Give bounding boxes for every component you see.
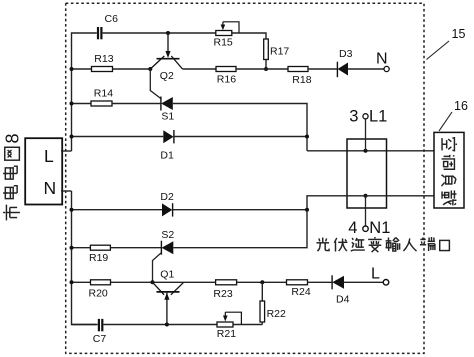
wire: S2 to right vertical xyxy=(173,210,307,248)
svg-text:R20: R20 xyxy=(89,288,108,300)
svg-text:L: L xyxy=(371,266,380,283)
wire: bus to D1 xyxy=(72,136,164,138)
terminal N circle xyxy=(384,66,389,71)
wire: R21 to R22 bottom xyxy=(233,324,262,326)
wire: R22 bottom link xyxy=(261,322,263,325)
wire: R14 to S1 xyxy=(112,103,161,105)
resistor R18 xyxy=(288,67,308,72)
svg-text:Q2: Q2 xyxy=(160,70,174,82)
wire: R20 to Q1 junction xyxy=(111,281,153,283)
svg-text:R17: R17 xyxy=(270,46,289,58)
air conditioner load box xyxy=(434,132,464,208)
svg-text:3: 3 xyxy=(349,107,358,125)
wire: relay bottom feed xyxy=(307,196,434,210)
wire: C7 to R21 xyxy=(104,324,218,326)
svg-text:16: 16 xyxy=(454,99,468,113)
resistor R14 xyxy=(91,101,112,106)
relay connector box xyxy=(347,139,387,208)
thyristor S2 xyxy=(161,241,173,255)
capacitor C6 xyxy=(98,27,101,39)
svg-text:8: 8 xyxy=(3,133,23,143)
node: bus D1 xyxy=(70,135,74,139)
thyristor S1 xyxy=(161,97,173,111)
svg-text:R19: R19 xyxy=(89,252,108,264)
svg-text:R22: R22 xyxy=(267,308,286,320)
node: relay bottom terminal xyxy=(364,194,368,198)
node: D1 junction right xyxy=(305,135,309,139)
svg-text:R21: R21 xyxy=(217,328,236,340)
resistor R16 xyxy=(216,67,236,72)
potentiometer R15 xyxy=(216,22,239,36)
node: relay top terminal xyxy=(364,149,368,153)
resistor R19 xyxy=(90,245,110,250)
resistor R13 xyxy=(92,67,113,72)
svg-text:S2: S2 xyxy=(161,229,174,241)
wire: R19 to S2 xyxy=(110,247,161,249)
wire: R16 to R18 xyxy=(236,68,288,70)
node: R17 bottom junction xyxy=(264,67,268,71)
node: R22 top junction xyxy=(260,280,264,284)
callout line 16 xyxy=(439,112,452,131)
wire: S2 gate xyxy=(153,253,162,283)
svg-text:D3: D3 xyxy=(339,48,353,60)
svg-text:L1: L1 xyxy=(369,107,387,125)
potentiometer R21 xyxy=(217,312,241,327)
svg-text:15: 15 xyxy=(452,27,466,41)
resistor R17 xyxy=(264,39,269,60)
terminal L circle xyxy=(383,280,389,286)
node: Q2 base junction xyxy=(148,67,152,71)
wire: C6 to R15 xyxy=(103,32,216,34)
mains grid box xyxy=(25,138,62,204)
wire: Q2 to R16 xyxy=(183,68,217,70)
capacitor C7 xyxy=(99,319,102,331)
node: Q2 collector tap xyxy=(166,31,170,35)
svg-text:R16: R16 xyxy=(217,74,236,86)
wire: D3 to N terminal xyxy=(348,68,384,70)
wire: S1 gate xyxy=(150,69,161,99)
wire: bus to D2 xyxy=(72,209,163,211)
terminal N1 circle xyxy=(363,226,368,231)
terminal L1 circle xyxy=(363,114,368,119)
wire: C7 line left xyxy=(72,324,97,326)
svg-text:D1: D1 xyxy=(160,150,174,162)
wire: L stub xyxy=(61,150,72,152)
mains grid label 市电电网8 (vertical) xyxy=(3,133,23,220)
node: Q1 base junction xyxy=(151,280,155,284)
label 光伏逆变输入端口 xyxy=(316,237,449,252)
wire: L1 drop xyxy=(365,119,367,151)
wire: relay top feed xyxy=(307,150,434,152)
wire: D2 to right vertical xyxy=(173,209,307,211)
node: bus R19 xyxy=(70,246,74,250)
wire: R22 top link xyxy=(261,282,263,301)
wire: N1 drop xyxy=(365,196,367,226)
svg-text:L: L xyxy=(44,146,54,166)
wire: bus to R19 xyxy=(72,247,91,249)
wire: R13 to Q2 xyxy=(113,68,151,70)
wire: left bus lower xyxy=(72,191,98,325)
node: bus R20 xyxy=(70,280,74,284)
svg-text:N: N xyxy=(376,50,388,67)
callout line 15 xyxy=(427,41,450,60)
wire: R24 to D4 xyxy=(308,281,333,283)
wire: N stub xyxy=(61,190,72,192)
wire: S1 to right corner xyxy=(173,104,307,151)
svg-text:R23: R23 xyxy=(213,288,232,300)
svg-text:4: 4 xyxy=(348,219,357,237)
wire: R15 to R17 corner xyxy=(232,33,266,39)
diode D4 xyxy=(332,275,344,289)
resistor R23 xyxy=(216,280,237,285)
svg-text:C6: C6 xyxy=(105,13,119,25)
diode D3 xyxy=(337,62,348,77)
resistor R22 xyxy=(260,301,265,322)
node: bus R13 xyxy=(70,67,74,71)
wire: bus to R20 xyxy=(72,281,91,283)
svg-text:R24: R24 xyxy=(291,286,310,298)
label 空调负载 (vertical) xyxy=(442,137,457,205)
diode D2 xyxy=(162,203,173,216)
svg-text:D2: D2 xyxy=(160,191,174,203)
transistor Q1 xyxy=(153,282,184,324)
wire: R23 to R24 xyxy=(237,281,287,283)
wire: R17 bottom to line xyxy=(265,60,267,70)
svg-text:R14: R14 xyxy=(94,88,113,100)
diode D1 xyxy=(163,130,174,143)
svg-text:R18: R18 xyxy=(292,74,311,86)
svg-text:D4: D4 xyxy=(336,293,350,305)
svg-text:N1: N1 xyxy=(369,219,390,237)
wire: bus to R13 xyxy=(72,68,92,70)
transistor Q2 xyxy=(150,33,182,69)
enclosure dashed border xyxy=(66,3,424,353)
wire: D1 to right vertical xyxy=(174,136,307,138)
resistor R24 xyxy=(287,280,308,285)
svg-text:R15: R15 xyxy=(214,37,233,49)
wire: Q1 to R23 xyxy=(153,281,216,283)
svg-text:Q1: Q1 xyxy=(160,269,174,281)
wire: R18 to D3 xyxy=(308,68,337,70)
svg-text:C7: C7 xyxy=(93,333,107,345)
node: Q1 emitter tap xyxy=(165,323,169,327)
wire: left bus upper xyxy=(72,33,97,151)
node: bus R14 xyxy=(70,102,74,106)
node: D2 junction right xyxy=(305,208,309,212)
svg-text:R13: R13 xyxy=(94,53,113,65)
node: bus D2 xyxy=(70,208,74,212)
wire: bus to R14 xyxy=(72,103,92,105)
svg-text:S1: S1 xyxy=(161,111,174,123)
wire: D4 to L terminal xyxy=(344,281,383,283)
resistor R20 xyxy=(91,280,111,285)
svg-text:N: N xyxy=(44,178,57,198)
